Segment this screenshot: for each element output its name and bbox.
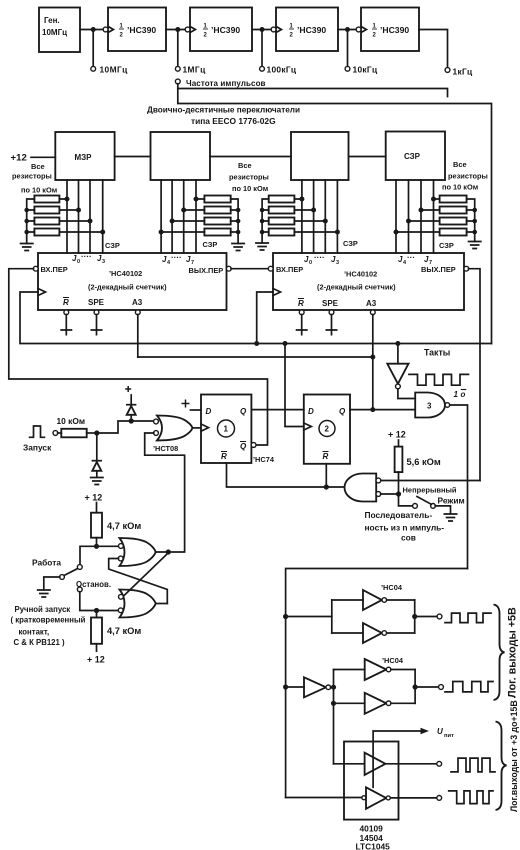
resistor R1 10k: [57, 416, 97, 437]
wire G1 output to FF1 clock: [193, 427, 202, 429]
svg-text:Последователь-: Последователь-: [365, 510, 433, 520]
node R4 junction: [94, 608, 99, 613]
switch S5 mode selector: [413, 497, 451, 514]
brace outputs 3-15V: [496, 722, 507, 811]
waveform output 4: [449, 791, 493, 804]
svg-text:пит: пит: [444, 733, 454, 739]
wire S3-S4: [349, 156, 386, 158]
svg-text:3: 3: [102, 259, 105, 265]
node R FF2: [324, 484, 329, 489]
wire frequency stub: [178, 84, 448, 97]
svg-text:4,7 кОм: 4,7 кОм: [107, 521, 141, 531]
SECTION: counters: [9, 252, 492, 481]
wire G1 to U1: [80, 29, 103, 31]
svg-text:10кГц: 10кГц: [353, 65, 378, 75]
node pair1 output: [412, 614, 417, 619]
wire S2 pins J4-J7: [160, 180, 162, 253]
counter U6 HC40102 box: [273, 253, 464, 310]
svg-text:R: R: [63, 298, 69, 307]
ground RN2: [231, 233, 245, 250]
wire pair1 buses: [332, 600, 415, 633]
terminal output 2: [439, 685, 444, 690]
terminal 10MHz: [91, 66, 96, 71]
svg-text:СЗР: СЗР: [404, 152, 421, 161]
node 10kHz junction: [345, 27, 350, 32]
node inverter clock tap: [395, 341, 400, 346]
label resistors middle: [229, 161, 269, 193]
svg-text:+ 12: + 12: [85, 493, 103, 503]
svg-text:1: 1: [224, 425, 229, 434]
pin Qbar FF1 bubble: [251, 443, 256, 448]
wire clock bus drop to FF2 clock: [285, 344, 304, 427]
svg-text:Q: Q: [240, 442, 247, 451]
terminal frequency select: [175, 79, 180, 84]
pin VH.PER U5: [33, 266, 38, 271]
svg-text:СЗР: СЗР: [343, 239, 358, 248]
svg-text:Такты: Такты: [424, 348, 450, 358]
svg-text:ВХ.ПЕР: ВХ.ПЕР: [41, 265, 68, 274]
node clock drop: [283, 341, 288, 346]
svg-text:····: ····: [171, 253, 182, 262]
ground S5: [444, 514, 458, 521]
ground RN3: [255, 233, 269, 250]
svg-text:D: D: [206, 407, 212, 416]
ground RN1: [20, 233, 34, 250]
divider U3 1/2 HC390: [271, 8, 338, 52]
wire U2 to U3: [252, 29, 273, 31]
svg-text:5,6 кОм: 5,6 кОм: [407, 457, 441, 467]
inverter U10a: [334, 659, 416, 680]
box U11 high voltage buffers: [344, 742, 399, 820]
waveform output 3: [451, 758, 495, 772]
wire pair1 feed: [286, 616, 332, 618]
wire 10MHz tap: [92, 30, 94, 67]
svg-text:Режим: Режим: [438, 496, 465, 506]
resistor network RN4: [394, 196, 478, 236]
node Zapusk junction: [94, 430, 99, 435]
svg-text:МЗР: МЗР: [75, 153, 93, 162]
svg-text:резисторы: резисторы: [12, 172, 52, 181]
wire Rabota line: [80, 546, 119, 565]
resistor network RN3: [260, 196, 340, 236]
wire pair2 output: [415, 686, 439, 688]
wire U3 to U4: [338, 29, 358, 31]
node 1MHz junction: [175, 27, 180, 32]
wire clock bus: [20, 292, 492, 344]
diode D1 clamp to +12: [125, 386, 136, 419]
wire S1-S2: [115, 156, 151, 158]
pin VH.PER U6: [268, 266, 273, 271]
inverter U9 driver: [286, 677, 334, 697]
switch S6 run-stop arm: [44, 569, 78, 590]
terminal 10kHz: [345, 66, 350, 71]
svg-text:2: 2: [325, 425, 330, 434]
label resistors left: [12, 162, 57, 195]
svg-text:Все: Все: [31, 162, 45, 171]
node G5 output: [166, 549, 171, 554]
svg-text:Ручной запуск: Ручной запуск: [15, 605, 71, 614]
svg-text:’НСТ08: ’НСТ08: [153, 444, 178, 453]
svg-text:1МГц: 1МГц: [183, 65, 207, 75]
ground D2: [90, 478, 104, 485]
svg-text:по 10 кОм: по 10 кОм: [442, 183, 478, 192]
inverter U7 Takty: [387, 344, 415, 399]
contact Rabota: [77, 565, 82, 570]
divider U1 1/2 HC390: [103, 8, 166, 52]
wire pair2 output bus: [414, 670, 416, 704]
svg-text:Лог.выходы от +3 до+15В: Лог.выходы от +3 до+15В: [509, 700, 519, 812]
wire carry out U6 right and down: [469, 269, 481, 481]
svg-text:+12: +12: [11, 153, 27, 164]
wire carry U5 to U6: [231, 268, 271, 270]
svg-text:’НС390: ’НС390: [380, 25, 409, 35]
gate G1 HCT08 NAND or-style: [153, 416, 193, 454]
svg-text:ность из n импуль-: ность из n импуль-: [365, 523, 445, 533]
contact Ostanov: [77, 587, 82, 592]
ground RN4: [468, 232, 482, 249]
gate G3 NAND: [415, 393, 450, 418]
svg-text:’НС40102: ’НС40102: [109, 269, 142, 278]
inverter U8b: [332, 623, 415, 643]
pin VYH.PER U6: [464, 266, 469, 271]
svg-text:А3: А3: [132, 298, 143, 307]
gate G5 NOR latch top: [118, 538, 156, 566]
pin SPE U5 with pullup: [91, 310, 103, 336]
wire 10kHz tap: [347, 30, 349, 67]
svg-text:’НС04: ’НС04: [381, 583, 403, 592]
wire U1 to U2: [166, 29, 187, 31]
counter U5 HC40102 box: [38, 252, 227, 310]
svg-text:резисторы: резисторы: [448, 172, 488, 181]
SECTION: middle flipflops: [23, 341, 480, 569]
ground S6: [37, 590, 51, 597]
switch S3 box: [291, 132, 349, 180]
svg-text:0: 0: [309, 260, 312, 266]
wire G5 output up to G1: [156, 551, 185, 553]
svg-text:(2-декадный счетчик): (2-декадный счетчик): [317, 283, 396, 292]
wire G1 lower input loop from latch: [145, 433, 185, 551]
svg-text:R: R: [221, 452, 227, 461]
buffer U11b inverting: [286, 787, 437, 809]
SECTION: latch: [11, 493, 185, 665]
divider U4 1/2 HC390: [356, 8, 419, 52]
wire G4 lower input: [381, 493, 399, 495]
svg-text:D: D: [308, 407, 314, 416]
svg-text:ВХ.ПЕР: ВХ.ПЕР: [276, 265, 303, 274]
switch S2 box: [151, 132, 211, 180]
svg-text:Q: Q: [339, 407, 346, 416]
node pair1 tap: [283, 614, 288, 619]
svg-text:1: 1: [454, 390, 459, 399]
svg-text:Запуск: Запуск: [23, 443, 52, 453]
svg-text:’НС04: ’НС04: [382, 656, 404, 665]
svg-text:ВЫХ.ПЕР: ВЫХ.ПЕР: [189, 266, 224, 275]
svg-text:R: R: [298, 299, 304, 308]
pin D FF1 tied high: [182, 400, 202, 411]
input pulse symbol Zapusk: [30, 426, 45, 437]
svg-text:10 кОм: 10 кОм: [57, 416, 86, 426]
SECTION: top divider chain: [39, 8, 492, 344]
node R3 junction: [94, 544, 99, 549]
buffer U11a: [334, 753, 438, 775]
svg-text:по 10 кОм: по 10 кОм: [21, 186, 57, 195]
svg-text:+ 12: + 12: [388, 430, 406, 440]
svg-text:Лог. выходы +5В: Лог. выходы +5В: [507, 607, 519, 698]
svg-text:+ 12: + 12: [87, 655, 105, 665]
svg-text:100кГц: 100кГц: [267, 65, 297, 75]
wire node to gate input: [97, 421, 155, 433]
svg-text:Двоично-десятичные переключат: Двоично-десятичные переключатели: [147, 106, 300, 115]
svg-text:А3: А3: [366, 299, 377, 308]
svg-text:(2-декадный счетчик): (2-декадный счетчик): [88, 283, 167, 292]
label resistors right: [442, 160, 488, 192]
svg-text:ВЫХ.ПЕР: ВЫХ.ПЕР: [421, 265, 456, 274]
pin SPE U6 with pullup: [326, 310, 338, 336]
node pair2 input taps: [331, 685, 336, 690]
label manual start: [11, 605, 86, 647]
wire Q FF1 to D FF2: [251, 409, 303, 411]
switch S4 SZR box: [386, 132, 445, 181]
svg-text:Ген.: Ген.: [44, 16, 60, 25]
wire reset line FF1 FF2 from gate 4: [227, 463, 345, 487]
svg-text:Частота импульсов: Частота импульсов: [186, 79, 266, 88]
divider U2 1/2 HC390: [185, 8, 252, 52]
wire R FF2 drop: [325, 464, 327, 487]
wire 1MHz tap: [177, 30, 179, 67]
wire S4 pins J4-J7: [395, 180, 397, 253]
node pair2 output: [413, 684, 418, 689]
wire 100kHz tap: [261, 30, 263, 67]
svg-text:резисторы: резисторы: [229, 173, 269, 182]
wire internal supply rail: [372, 742, 374, 788]
waveform clock symbol: [409, 374, 469, 385]
waveform output 2: [445, 682, 493, 692]
terminal output 1: [437, 614, 442, 619]
flipflop FF2 HC74 box: [304, 395, 350, 464]
svg-text:3: 3: [336, 260, 339, 266]
gate G4 NAND mirrored: [345, 474, 381, 502]
svg-text:0: 0: [77, 259, 80, 265]
svg-text:····: ····: [314, 253, 325, 262]
label sequence of n pulses: [365, 510, 445, 543]
svg-text:Непрерывный: Непрерывный: [403, 486, 457, 495]
gate G6 NOR latch bottom: [118, 590, 156, 618]
resistor R2 5.6k pull: [388, 430, 441, 495]
svg-text:’НС390: ’НС390: [211, 25, 240, 35]
resistor R4 4.7k pulldown: [87, 611, 141, 665]
svg-text:( кратковременный: ( кратковременный: [11, 616, 86, 625]
svg-text:по 10 кОм: по 10 кОм: [232, 184, 268, 193]
node G4 pull junction: [396, 491, 401, 496]
svg-text:10МГц: 10МГц: [100, 65, 129, 75]
terminal 100kHz: [260, 66, 265, 71]
wire S1 pins J0-J3: [66, 180, 68, 253]
resistor network RN2: [159, 196, 241, 236]
svg-text:о: о: [461, 390, 466, 399]
svg-text:СЗР: СЗР: [105, 241, 120, 250]
svg-text:40109: 40109: [360, 824, 384, 834]
terminal Zapusk: [53, 431, 58, 436]
svg-text:СЗР: СЗР: [439, 241, 454, 250]
pin A3 U5 to A3 bus: [135, 310, 140, 357]
svg-text:3: 3: [427, 402, 432, 411]
svg-text:SPE: SPE: [322, 299, 339, 308]
switch S1 MZR box: [55, 132, 114, 180]
wire pair2 input bus down to box: [333, 670, 335, 764]
svg-text:контакт,: контакт,: [19, 628, 50, 637]
wire cross coupling B: [109, 559, 168, 604]
svg-text:1кГц: 1кГц: [453, 67, 473, 77]
wire Ostanov line: [80, 592, 120, 611]
diode D2 clamp to ground: [92, 433, 102, 477]
svg-text:сов: сов: [401, 533, 416, 543]
resistor R3 4.7k pullup: [85, 493, 142, 547]
flipflop FF1 HC74 box: [201, 395, 251, 464]
wire S2-S3: [210, 156, 291, 158]
node 10MHz junction: [91, 27, 96, 32]
wire VH.PER U5 from FF1 Qbar: [9, 269, 268, 445]
wire Q FF2 to gate 3: [350, 409, 415, 411]
pin R U5 with pullup: [60, 310, 72, 336]
terminal output 4: [437, 796, 442, 801]
svg-text:10МГц: 10МГц: [42, 28, 67, 37]
svg-text:SPE: SPE: [88, 298, 105, 307]
wire pair1 output: [415, 616, 438, 618]
terminal 1MHz: [175, 66, 180, 71]
pin R U6 with pullup: [296, 310, 308, 336]
SECTION: switch boxes: [11, 106, 488, 254]
pin A3 U6 down to gate 3 input: [370, 310, 375, 412]
SECTION: bottom buffers: [283, 569, 519, 850]
resistor network RN1: [24, 196, 105, 236]
svg-text:LTC1045: LTC1045: [356, 842, 391, 850]
wire Upit supply: [373, 727, 454, 742]
wire A3 bus: [138, 356, 373, 358]
svg-text:4,7 кОм: 4,7 кОм: [107, 626, 141, 636]
wire to switch contact: [399, 494, 413, 506]
wire G3 output down: [450, 405, 468, 569]
svg-text:’НС40102: ’НС40102: [344, 270, 377, 279]
svg-text:Работа: Работа: [32, 558, 61, 568]
svg-text:Все: Все: [453, 160, 467, 169]
svg-text:С & К РВ121 ): С & К РВ121 ): [14, 638, 66, 647]
wire U4 output to 1kHz: [419, 30, 448, 68]
node 100kHz junction: [260, 27, 265, 32]
terminal output 3: [437, 761, 442, 766]
label logic levels 1 0bar: [454, 390, 467, 400]
wire G3 output feed line: [286, 569, 468, 798]
brace outputs 5V: [494, 605, 505, 701]
svg-text:····: ····: [81, 252, 92, 261]
svg-text:R: R: [323, 452, 329, 461]
svg-text:Все: Все: [238, 161, 252, 170]
wire clock to U6: [257, 292, 273, 344]
wire cross coupling A: [123, 553, 168, 597]
generator G1 10MHz box: [39, 8, 80, 53]
svg-text:типа EECO 1776-02G: типа EECO 1776-02G: [191, 116, 276, 126]
inverter U8a: [332, 590, 415, 610]
svg-text:СЗР: СЗР: [203, 240, 218, 249]
pin VYH.PER U5: [226, 266, 231, 271]
node clock U6: [254, 341, 259, 346]
svg-text:···: ···: [407, 253, 415, 262]
waveform output 1: [445, 613, 491, 623]
wire frequency feed to clock bus: [178, 89, 492, 344]
node diode D1: [129, 418, 134, 423]
inverter U10b: [334, 693, 416, 714]
wire continuous mode line: [381, 480, 480, 482]
label U11 part numbers: [356, 824, 391, 850]
svg-text:’НС74: ’НС74: [253, 455, 275, 464]
svg-text:’НС390: ’НС390: [127, 25, 156, 35]
svg-text:Q: Q: [240, 407, 247, 416]
svg-text:’НС390: ’НС390: [297, 25, 326, 35]
wire G6 output: [156, 603, 168, 605]
node inverter tap: [283, 684, 288, 689]
svg-text:U: U: [437, 727, 443, 736]
terminal 1kHz: [445, 68, 450, 73]
wire S3 pins J0-J3: [301, 180, 303, 253]
